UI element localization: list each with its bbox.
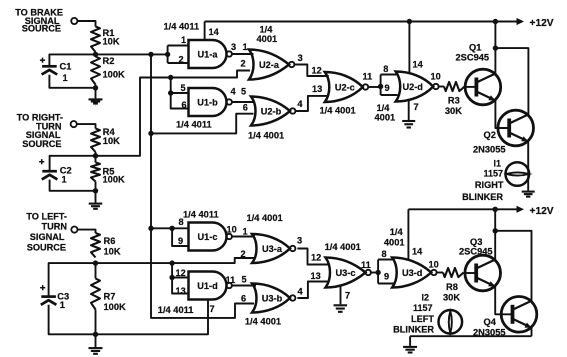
svg-text:3: 3 <box>297 236 302 246</box>
svg-text:13: 13 <box>311 271 321 281</box>
nand gate U1-b <box>189 88 232 116</box>
svg-text:2N3055: 2N3055 <box>473 144 506 154</box>
junction rail/Q1 <box>493 19 498 24</box>
left-turn bus wire <box>96 258 255 263</box>
svg-text:1: 1 <box>63 73 68 83</box>
svg-text:Q1: Q1 <box>469 42 481 52</box>
lamp I1 1157 <box>506 162 530 186</box>
capacitor C3 <box>41 297 57 305</box>
label C1 1 <box>60 61 72 83</box>
svg-text:4001: 4001 <box>375 112 396 122</box>
wire Q2 emitter down <box>527 142 529 191</box>
wire U1-d pin7 to ground bus <box>96 300 209 335</box>
pin 6 <box>241 294 246 304</box>
wire pin 12 <box>172 277 188 279</box>
pin 1 <box>243 42 248 52</box>
ground below R2 <box>89 99 103 105</box>
label R5 100K <box>103 166 126 184</box>
svg-text:9: 9 <box>384 271 389 281</box>
pin 11 label <box>363 71 373 81</box>
wire <box>77 124 96 128</box>
svg-text:100K: 100K <box>103 69 126 79</box>
svg-text:1/4 4001: 1/4 4001 <box>247 213 283 223</box>
+12V rail top <box>205 21 517 23</box>
wire pin 5 <box>171 92 189 94</box>
svg-text:12: 12 <box>176 268 186 278</box>
svg-text:12: 12 <box>311 252 321 262</box>
pin 6 <box>243 102 248 112</box>
wire U2-b out <box>295 96 329 111</box>
junction U1-b tie top <box>168 75 173 80</box>
svg-text:13: 13 <box>176 286 186 296</box>
svg-text:13: 13 <box>312 84 322 94</box>
pin 14 label <box>209 27 220 37</box>
svg-text:14: 14 <box>412 246 423 256</box>
wire <box>78 230 96 233</box>
svg-text:U3-c: U3-c <box>336 268 356 278</box>
resistor R8 <box>443 268 464 277</box>
svg-text:1/4 4001: 1/4 4001 <box>245 316 281 326</box>
junction rail/Q3 <box>493 207 498 212</box>
wire U1-c input tie <box>172 228 188 246</box>
svg-text:9: 9 <box>385 83 390 93</box>
pin 13 label <box>312 84 322 94</box>
pin 3 <box>231 42 236 52</box>
wire U2-a out <box>294 65 328 77</box>
wire U3-d out <box>437 272 443 274</box>
svg-text:8: 8 <box>383 64 388 74</box>
arrow +12V bottom <box>517 206 525 213</box>
label I2 1157 LEFT BLINKER <box>393 292 434 334</box>
svg-text:R3: R3 <box>448 95 460 105</box>
brake bus vertical <box>151 54 254 318</box>
wire brake to U2-b pin6 <box>151 114 254 134</box>
nor gate U2-a <box>249 50 294 80</box>
pin 8 <box>179 217 184 227</box>
svg-text:U2-c: U2-c <box>335 83 355 93</box>
wire to Q2 collector <box>495 48 528 115</box>
label 1/4 4001 (U2-d) <box>375 103 396 122</box>
pin 2 <box>241 249 246 259</box>
pin 9 label <box>385 83 390 93</box>
pin 5 <box>241 86 246 96</box>
pin 3 <box>298 53 303 63</box>
svg-text:R2: R2 <box>103 56 115 66</box>
resistor R7 <box>91 279 100 310</box>
svg-text:1/4 4011: 1/4 4011 <box>176 119 212 129</box>
wire U3-c out <box>371 272 378 274</box>
svg-text:SOURCE: SOURCE <box>22 23 61 33</box>
svg-text:7: 7 <box>414 102 419 112</box>
label Q4 <box>473 317 506 337</box>
pin 13 label <box>311 271 321 281</box>
wire U1-d input tie <box>172 263 188 293</box>
arrow +12V top <box>517 18 525 25</box>
svg-text:9: 9 <box>178 236 183 246</box>
wire U1-b input tie <box>171 78 189 109</box>
label 1/4 4001 (U2-a) <box>257 24 278 44</box>
label 1/4 4001 (U3-d) <box>384 227 405 247</box>
nor gate U3-a <box>252 234 295 263</box>
pin 8 label <box>383 64 388 74</box>
label I1 1157 RIGHT BLINKER <box>462 158 504 202</box>
svg-text:SOURCE: SOURCE <box>27 243 66 253</box>
resistor R5 <box>91 163 100 182</box>
svg-text:BLINKER: BLINKER <box>462 192 503 202</box>
junction R5 bottom <box>93 188 98 193</box>
wire <box>95 263 97 347</box>
svg-text:Q2: Q2 <box>484 130 496 140</box>
label R4 10K <box>103 127 120 146</box>
pin 9 <box>178 236 183 246</box>
svg-text:14: 14 <box>209 27 220 37</box>
nor gate U2-d <box>396 72 439 102</box>
pin 1 <box>243 227 248 237</box>
svg-text:U1-b: U1-b <box>197 98 218 108</box>
node A junction R1/R2 <box>93 52 98 57</box>
pin 3 <box>297 236 302 246</box>
pin 1 <box>181 35 186 45</box>
svg-text:U3-a: U3-a <box>262 244 283 254</box>
wire U1-a input tie <box>168 46 189 64</box>
wire C3 bottom <box>49 305 96 335</box>
svg-text:1/4 4011: 1/4 4011 <box>183 209 219 219</box>
label 1/4 4011 (U1) <box>164 21 200 31</box>
svg-text:I2: I2 <box>421 292 429 302</box>
svg-text:2: 2 <box>241 249 246 259</box>
pin 2 <box>241 59 246 69</box>
svg-text:U2-b: U2-b <box>261 107 282 117</box>
capacitor C2 <box>42 171 58 179</box>
svg-text:14: 14 <box>413 59 424 69</box>
svg-text:6: 6 <box>243 102 248 112</box>
svg-text:5: 5 <box>242 275 247 285</box>
label R8 30K <box>443 282 460 302</box>
svg-text:30K: 30K <box>445 106 462 116</box>
svg-text:10: 10 <box>429 259 439 269</box>
transistor Q1 2SC945 <box>465 69 501 105</box>
nor gate U2-b <box>251 97 295 126</box>
pin 10 <box>227 225 237 235</box>
node C junction R6/R7 <box>93 260 98 265</box>
svg-text:10K: 10K <box>104 247 121 257</box>
svg-text:100K: 100K <box>103 174 126 184</box>
wire node B to bus <box>96 71 251 156</box>
pin 10 label <box>431 71 441 81</box>
svg-text:1/4 4001: 1/4 4001 <box>325 242 361 252</box>
svg-text:C1: C1 <box>60 61 72 71</box>
terminal right-turn input <box>71 121 77 127</box>
svg-text:U2-d: U2-d <box>402 82 422 92</box>
junction U1-c tie <box>169 226 174 231</box>
label 1/4 4001 (above U3-a) <box>247 213 283 223</box>
svg-text:10K: 10K <box>103 37 120 47</box>
pin 11 label <box>361 260 371 270</box>
label Q1 <box>456 42 490 62</box>
pin 6 <box>182 100 187 110</box>
pin 12 label <box>311 252 321 262</box>
pin 12 <box>176 268 186 278</box>
wire Q3 emitter to Q4 base <box>495 287 512 315</box>
svg-text:8: 8 <box>179 217 184 227</box>
junction Q3/Q4 collector <box>493 228 498 233</box>
svg-text:Q4: Q4 <box>484 317 497 327</box>
svg-text:3: 3 <box>231 42 236 52</box>
svg-text:11: 11 <box>363 71 373 81</box>
label R2 100K <box>103 56 126 79</box>
svg-text:TURN: TURN <box>41 221 67 231</box>
svg-text:R6: R6 <box>104 236 116 246</box>
wire Q3 collector riser <box>494 209 496 259</box>
svg-text:1157: 1157 <box>413 303 433 313</box>
pin 4 <box>297 99 303 109</box>
net label TO RIGHT-TURN SIGNAL SOURCE <box>17 112 63 149</box>
wire R8 to Q3 base <box>464 272 477 274</box>
label Q3 <box>459 237 493 256</box>
wire <box>95 85 97 99</box>
label Q2 <box>473 130 506 155</box>
wire brake to U1-c pins <box>151 227 189 229</box>
junction rail/U2-d <box>407 19 412 24</box>
svg-text:5: 5 <box>241 86 246 96</box>
svg-text:6: 6 <box>182 100 187 110</box>
transistor Q3 2SC945 <box>465 255 501 291</box>
junction U1-d pin12 <box>169 275 174 280</box>
wire U3-a out <box>297 249 328 265</box>
svg-text:1: 1 <box>243 227 248 237</box>
junction Q1/Q2 collector <box>493 45 498 50</box>
pin 9 label <box>384 271 389 281</box>
junction R7 bottom <box>93 332 98 337</box>
label 1/4 4001 (above U3-c) <box>325 242 361 252</box>
nand gate U1-d <box>189 272 232 300</box>
nor gate U3-b <box>252 284 295 313</box>
svg-text:U1-c: U1-c <box>198 232 218 242</box>
terminal brake input <box>71 18 77 24</box>
pin 14 label <box>412 246 423 256</box>
wire Q4 emitter to bottom wire <box>531 328 533 336</box>
label +12V bottom <box>530 206 554 217</box>
ground below lamp I1 <box>522 192 535 197</box>
label 1/4 4011 (above U1-c) <box>183 209 219 219</box>
pin 7 label <box>414 102 419 112</box>
wire C2 bottom <box>50 180 96 191</box>
nor gate U3-d <box>392 258 436 288</box>
svg-text:+12V: +12V <box>530 18 554 29</box>
pin 8 label <box>382 249 387 259</box>
nand gate U1-c <box>189 223 232 251</box>
resistor R6 <box>91 233 100 258</box>
svg-text:1/4 4001: 1/4 4001 <box>248 130 284 140</box>
svg-text:5: 5 <box>181 83 186 93</box>
svg-text:1/4 4001: 1/4 4001 <box>320 105 356 115</box>
label C3 1 <box>57 291 69 310</box>
label 1/4 4011 (below U1-b) <box>176 119 212 129</box>
svg-text:U3-d: U3-d <box>402 268 422 278</box>
svg-text:1: 1 <box>62 175 67 185</box>
wire C1 bottom <box>49 75 95 88</box>
ground below R5 <box>89 204 103 209</box>
wire to C2 <box>50 156 96 171</box>
svg-text:100K: 100K <box>104 302 127 312</box>
transistor Q4 2N3055 <box>501 297 537 333</box>
svg-text:2: 2 <box>179 55 184 65</box>
svg-text:2: 2 <box>241 59 246 69</box>
svg-text:11: 11 <box>226 275 236 285</box>
label +12V top <box>530 18 554 29</box>
wire U2-d pin14 riser <box>408 22 410 74</box>
pin 7 label U1-d <box>210 304 215 314</box>
ground U2-d pin7 <box>402 121 415 128</box>
svg-text:R8: R8 <box>446 282 458 292</box>
junction brake bus to U2-b <box>148 131 153 136</box>
svg-text:6: 6 <box>241 294 246 304</box>
wire U3-d pin14 riser <box>407 209 409 259</box>
label C2 1 <box>60 165 72 184</box>
resistor R2 <box>91 57 100 85</box>
wire U2-c out <box>368 86 380 88</box>
svg-text:U3-b: U3-b <box>262 294 283 304</box>
polarity + C3 <box>40 285 45 290</box>
pin 5 <box>242 275 247 285</box>
junction U1-b pin5 <box>168 90 173 95</box>
wire U3-d input tie <box>378 260 394 284</box>
junction R2 bottom <box>93 85 98 90</box>
ground U3-c pin7 <box>334 305 348 312</box>
svg-text:I1: I1 <box>493 158 501 168</box>
svg-text:1/4 4011: 1/4 4011 <box>164 21 200 31</box>
svg-text:SOURCE: SOURCE <box>22 139 61 149</box>
wire U3-b out <box>297 282 328 299</box>
svg-text:2SC945: 2SC945 <box>459 246 493 256</box>
svg-text:BLINKER: BLINKER <box>393 325 434 335</box>
pin 14 label <box>413 59 424 69</box>
wire bottom return <box>410 335 531 337</box>
svg-text:4: 4 <box>231 86 237 96</box>
junction U1-d tie top <box>169 260 174 265</box>
svg-text:1: 1 <box>181 35 186 45</box>
net label TO LEFT-TURN SIGNAL SOURCE <box>26 212 67 253</box>
wire U1-a pin14 riser <box>204 22 206 41</box>
resistor R4 <box>91 129 100 153</box>
wire U1-c out <box>232 236 255 238</box>
svg-text:11: 11 <box>361 260 371 270</box>
node B junction R4/R5 <box>93 153 98 158</box>
wire U2-d pin7 <box>408 100 410 120</box>
svg-text:7: 7 <box>345 290 350 300</box>
wire U1-d out <box>232 285 256 287</box>
terminal left-turn input <box>71 227 77 233</box>
nand gate U1-a <box>189 40 232 68</box>
pin 11 <box>226 275 236 285</box>
junction U2-d input tie <box>378 84 383 89</box>
nor gate U3-c <box>326 258 371 288</box>
pin 4 <box>298 286 304 296</box>
ground below R7 <box>89 348 103 354</box>
wire to Q4 collector <box>495 231 531 302</box>
svg-text:U2-a: U2-a <box>259 60 280 70</box>
svg-text:4: 4 <box>297 99 303 109</box>
label 1/4 4001 (below U2-b) <box>248 130 284 140</box>
svg-text:1/4: 1/4 <box>260 24 274 34</box>
ground bottom left-channel <box>403 347 417 353</box>
wire to ground <box>409 336 411 346</box>
svg-text:10: 10 <box>431 71 441 81</box>
pin 4 <box>231 86 237 96</box>
net label TO BRAKE SIGNAL SOURCE <box>15 7 63 33</box>
wire U2-d out <box>438 86 444 88</box>
junction U3-d input tie <box>375 270 380 275</box>
junction brake bus to U1-c <box>148 226 153 231</box>
junction brake bus <box>148 52 153 57</box>
pin 10 label <box>429 259 439 269</box>
svg-text:8: 8 <box>382 249 387 259</box>
pin 5 <box>181 83 186 93</box>
svg-text:TO LEFT-: TO LEFT- <box>26 212 67 222</box>
wire to C3 <box>49 263 96 296</box>
wire U1-a out <box>232 53 254 55</box>
label 1/4 4011 (below U1-d) <box>158 305 194 315</box>
wire to C1 <box>49 54 95 66</box>
label R7 100K <box>104 291 127 312</box>
polarity + C2 <box>39 159 44 164</box>
wire <box>77 21 95 27</box>
label 1/4 4001 (below U3-b) <box>245 316 281 326</box>
svg-text:4: 4 <box>298 286 304 296</box>
wire <box>95 152 97 163</box>
svg-text:10: 10 <box>227 225 237 235</box>
wire U1-b out <box>232 101 254 103</box>
svg-text:10K: 10K <box>103 136 120 146</box>
label R1 10K <box>103 28 120 47</box>
svg-text:2SC945: 2SC945 <box>456 52 490 62</box>
svg-text:LEFT: LEFT <box>411 314 434 324</box>
resistor R3 <box>444 82 465 91</box>
svg-text:1: 1 <box>243 42 248 52</box>
label R6 10K <box>104 236 121 257</box>
junction U1-a input tie <box>165 52 170 57</box>
svg-text:1157: 1157 <box>483 168 503 178</box>
resistor R1 <box>91 27 100 53</box>
svg-text:SIGNAL: SIGNAL <box>30 232 65 242</box>
polarity + C1 <box>40 58 45 63</box>
nor gate U2-c <box>325 72 368 102</box>
svg-text:7: 7 <box>210 304 215 314</box>
wire <box>95 182 97 203</box>
label R3 30K <box>445 95 462 116</box>
svg-text:4001: 4001 <box>257 34 278 44</box>
pin 7 label U3-c <box>345 290 350 300</box>
wire Q1 emitter to Q2 base <box>495 101 509 129</box>
svg-text:1: 1 <box>60 300 65 310</box>
transistor Q2 2N3055 <box>498 110 534 146</box>
svg-text:RIGHT: RIGHT <box>475 180 504 190</box>
svg-text:U1-d: U1-d <box>197 281 217 291</box>
lamp I2 1157 <box>439 310 463 334</box>
capacitor C1 <box>42 66 58 74</box>
svg-text:4001: 4001 <box>384 237 405 247</box>
svg-text:12: 12 <box>312 65 322 75</box>
pin 13 <box>176 286 186 296</box>
svg-text:3: 3 <box>298 53 303 63</box>
svg-text:R7: R7 <box>104 291 116 301</box>
svg-text:1/4 4011: 1/4 4011 <box>158 305 194 315</box>
label 1/4 4001 (below U2-c) <box>320 105 356 115</box>
wire U2-d input tie <box>381 75 398 96</box>
wire Q1 collector riser <box>494 22 496 74</box>
pin 2 <box>179 55 184 65</box>
+12V rail bottom <box>408 208 517 210</box>
